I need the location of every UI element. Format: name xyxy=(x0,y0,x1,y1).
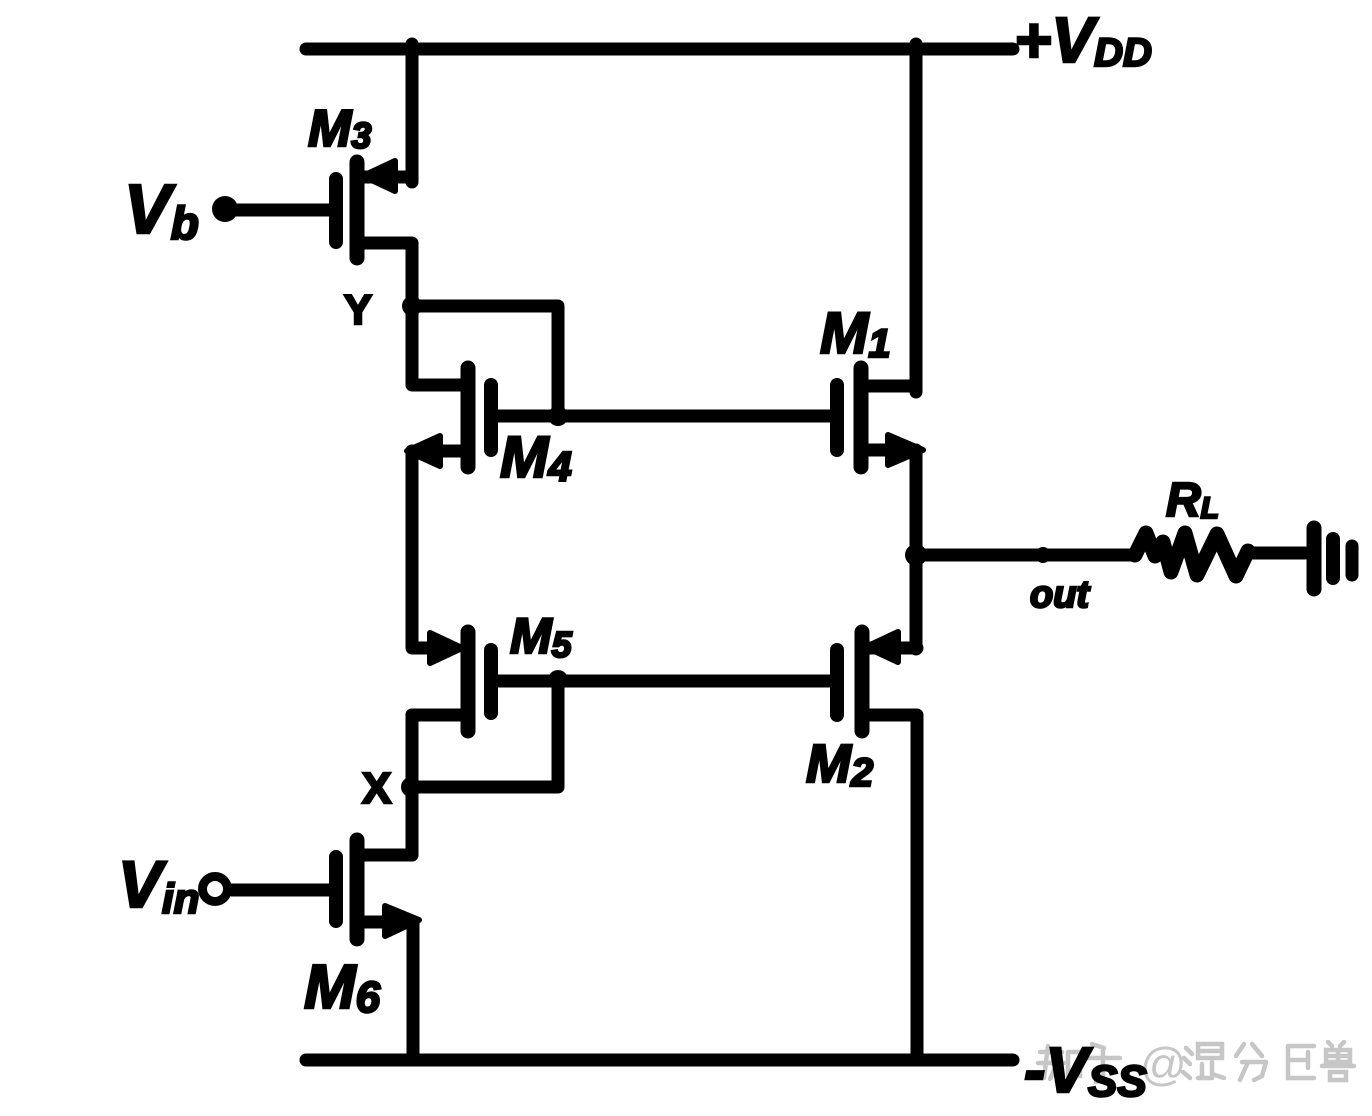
node out dot xyxy=(905,544,927,566)
watermark char 分 xyxy=(1236,1044,1266,1080)
resistor RL xyxy=(1135,533,1248,576)
svg-text:M3: M3 xyxy=(308,100,371,158)
svg-text:M6: M6 xyxy=(304,953,381,1022)
wire resistor to load bars xyxy=(1247,547,1305,560)
svg-text:X: X xyxy=(362,764,391,813)
Vb wire xyxy=(225,204,330,217)
watermark char 知 xyxy=(1038,1046,1080,1079)
out wire xyxy=(916,549,1133,562)
svg-text:out: out xyxy=(1030,574,1090,616)
svg-text:M2: M2 xyxy=(806,734,873,795)
wire M6 source to VSS rail xyxy=(407,922,420,1060)
wire out node to M2 drain xyxy=(910,555,923,649)
watermark char 乎 xyxy=(1086,1044,1120,1082)
wire M2 source to VSS rail xyxy=(862,715,917,1060)
transistor M2 xyxy=(837,632,917,731)
gate line M5 to M2 xyxy=(491,675,837,688)
node Y xyxy=(402,296,422,316)
wire VDD to M3 drain xyxy=(406,44,419,182)
ground bar 1 xyxy=(1307,528,1322,589)
gate line M4 to M1 xyxy=(491,410,837,423)
wire Y to gates of M4 and M1 xyxy=(412,306,558,416)
svg-text:M4: M4 xyxy=(500,425,572,490)
transistor M6 xyxy=(336,840,419,939)
junction dot gates M4/M1 xyxy=(548,406,568,426)
watermark xyxy=(1038,1038,1354,1090)
transistor M3 xyxy=(336,161,412,258)
out small dot xyxy=(1035,547,1051,563)
watermark char 巨 xyxy=(1288,1046,1314,1078)
+VDD rail xyxy=(306,43,1013,56)
wire VDD to M1 drain xyxy=(910,44,923,392)
Vb terminal dot xyxy=(212,196,238,222)
svg-text:RL: RL xyxy=(1166,474,1219,527)
wire gate junction to node X xyxy=(413,681,558,787)
junction dot gates M5/M2 xyxy=(548,670,568,690)
transistor M5 xyxy=(412,632,491,731)
node X xyxy=(401,777,421,797)
transistor M4 xyxy=(407,368,491,467)
svg-text:Vin: Vin xyxy=(118,847,199,922)
svg-text:@: @ xyxy=(1140,1038,1187,1090)
watermark char 混 xyxy=(1183,1044,1224,1078)
Vin wire xyxy=(232,884,330,897)
wire M5 drain through X to M6 drain xyxy=(358,715,412,855)
wire M4 source to M5 source xyxy=(412,451,432,648)
wire M3 source through node Y to M4 drain xyxy=(357,243,468,385)
-VSS rail xyxy=(306,1054,1013,1067)
ground bar 2 xyxy=(1326,539,1340,578)
Vin terminal circle xyxy=(203,877,228,902)
svg-text:-VSS: -VSS xyxy=(1024,1034,1147,1106)
svg-text:M5: M5 xyxy=(510,608,573,665)
ground bar 3 xyxy=(1346,546,1359,575)
svg-text:Vb: Vb xyxy=(124,170,199,249)
svg-text:Y: Y xyxy=(344,286,372,333)
watermark char 兽 xyxy=(1322,1042,1354,1080)
svg-text:+VDD: +VDD xyxy=(1014,4,1152,76)
transistor M1 xyxy=(837,368,923,467)
wire M1 source to out node xyxy=(910,450,923,555)
svg-text:M1: M1 xyxy=(820,301,891,366)
